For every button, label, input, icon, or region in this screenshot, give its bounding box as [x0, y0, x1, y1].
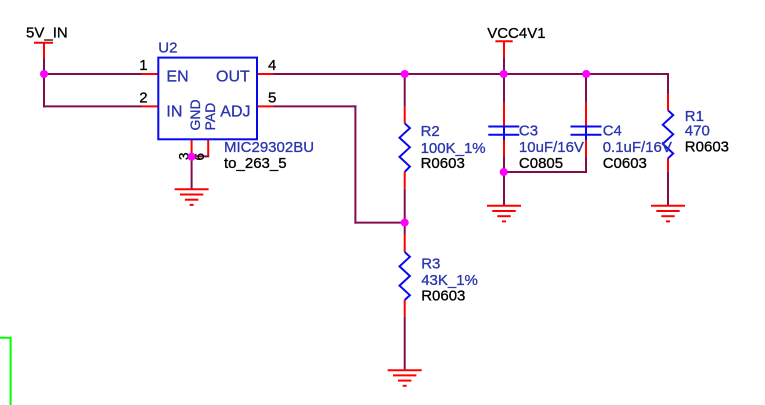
svg-text:100K_1%: 100K_1% — [421, 140, 486, 157]
svg-text:R0603: R0603 — [421, 287, 465, 304]
svg-text:ADJ: ADJ — [220, 104, 250, 121]
svg-text:R3: R3 — [421, 255, 440, 272]
svg-text:43K_1%: 43K_1% — [421, 272, 478, 289]
svg-text:R0603: R0603 — [685, 139, 729, 156]
svg-text:C0805: C0805 — [519, 155, 563, 172]
svg-text:to_263_5: to_263_5 — [224, 155, 287, 172]
svg-text:PAD: PAD — [202, 103, 218, 131]
svg-text:470: 470 — [685, 123, 710, 140]
svg-text:C3: C3 — [519, 123, 538, 140]
svg-text:4: 4 — [268, 57, 276, 74]
svg-text:C0603: C0603 — [603, 155, 647, 172]
svg-text:C4: C4 — [603, 123, 622, 140]
svg-text:EN: EN — [166, 68, 188, 85]
svg-text:0.1uF/16V: 0.1uF/16V — [603, 139, 672, 156]
svg-text:U2: U2 — [158, 40, 177, 57]
svg-text:R2: R2 — [421, 123, 440, 140]
svg-text:VCC4V1: VCC4V1 — [487, 25, 545, 42]
svg-text:MIC29302BU: MIC29302BU — [224, 139, 314, 156]
svg-text:OUT: OUT — [216, 69, 250, 86]
svg-text:1: 1 — [139, 57, 147, 74]
svg-text:5: 5 — [268, 89, 276, 106]
svg-text:10uF/16V: 10uF/16V — [519, 139, 584, 156]
svg-text:R0603: R0603 — [421, 155, 465, 172]
svg-text:GND: GND — [187, 99, 203, 130]
svg-text:IN: IN — [166, 104, 182, 121]
svg-text:2: 2 — [139, 89, 147, 106]
svg-text:5V_IN: 5V_IN — [26, 24, 68, 41]
